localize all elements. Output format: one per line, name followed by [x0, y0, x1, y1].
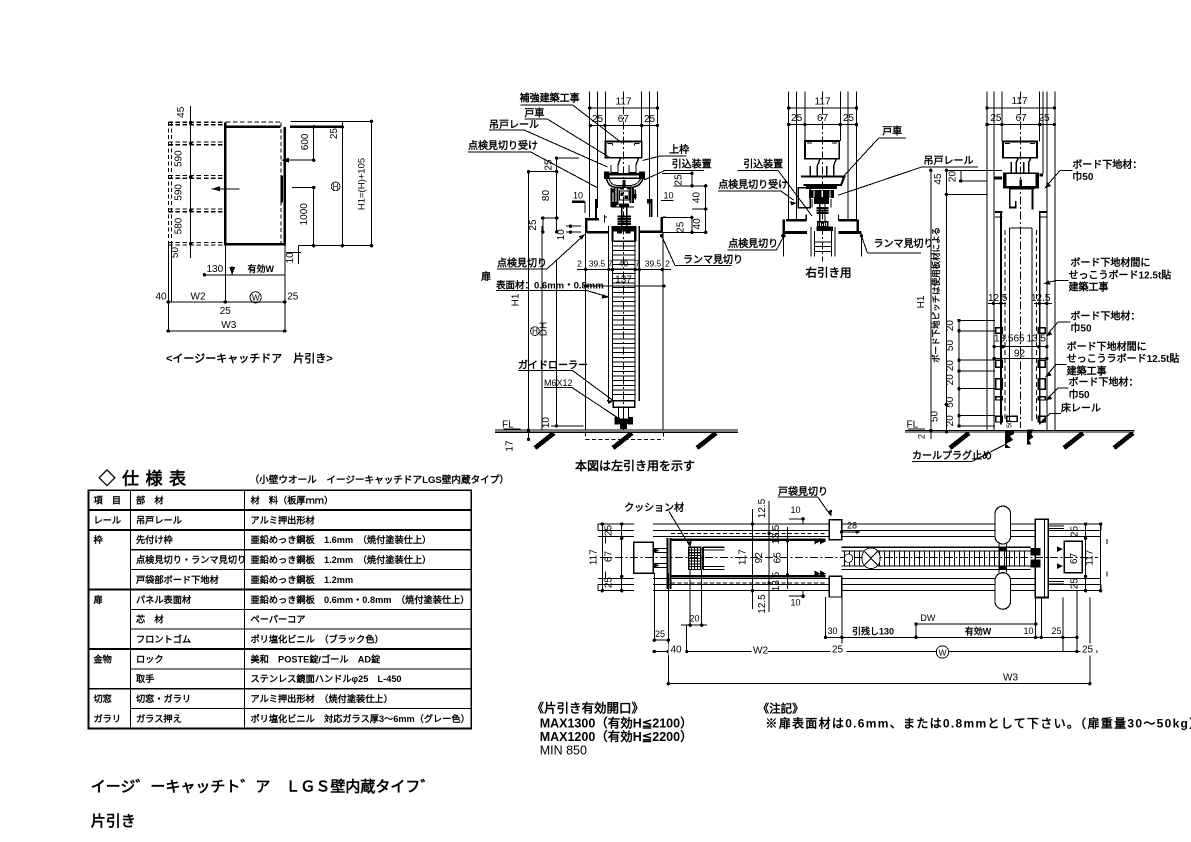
- drawing title: [91, 778, 436, 831]
- dim row 30/hikinokoshi/yukoW/10/25: [826, 636, 1077, 638]
- svg-text:25: 25: [843, 113, 855, 124]
- svg-text:W2: W2: [191, 291, 206, 302]
- centerline D: [1019, 92, 1021, 429]
- ledge left C: [786, 219, 806, 221]
- svg-text:7: 7: [608, 258, 613, 268]
- small detail circle: [844, 554, 852, 562]
- pocket side plates: [585, 233, 587, 430]
- dim 600: [313, 127, 315, 160]
- svg-text:扉: 扉: [94, 594, 103, 605]
- svg-text:点検見切り受け: 点検見切り受け: [468, 139, 538, 152]
- svg-text:25: 25: [528, 219, 539, 231]
- slide direction arrow: [212, 188, 240, 190]
- svg-text:25: 25: [220, 306, 232, 317]
- door cap D: [1009, 187, 1034, 189]
- svg-text:13.5: 13.5: [1027, 334, 1047, 345]
- substrate boxes D: [996, 328, 1003, 333]
- section C: right-sliding version top detail: [718, 92, 978, 280]
- substrate dashed lines D: [1004, 230, 1006, 420]
- bottom tie line: [299, 245, 372, 247]
- door panel plan (hatched): [842, 546, 1031, 548]
- plan dim 92: [768, 501, 770, 612]
- svg-text:ボード下地材間に: ボード下地材間に: [1067, 340, 1147, 353]
- right jamb: [1035, 519, 1048, 597]
- svg-text:点検見切り: 点検見切り: [728, 237, 778, 250]
- svg-text:92: 92: [754, 552, 765, 564]
- svg-text:右引き用: 右引き用: [805, 266, 852, 280]
- svg-text:20: 20: [945, 374, 956, 386]
- svg-text:40: 40: [156, 291, 168, 302]
- svg-text:25: 25: [655, 629, 665, 639]
- left dim col D: 45 line: [945, 170, 947, 432]
- door end black strikes: [1030, 548, 1040, 556]
- svg-text:10: 10: [556, 229, 567, 241]
- svg-text:65: 65: [773, 552, 784, 564]
- svg-text:レール: レール: [94, 515, 122, 525]
- svg-text:巾50: 巾50: [1070, 322, 1092, 335]
- svg-text:戸袋部ボード下地材: 戸袋部ボード下地材: [136, 574, 219, 585]
- svg-text:（小壁ウオール イージーキャッチドアLGS壁内蔵タイプ）: （小壁ウオール イージーキャッチドアLGS壁内蔵タイプ）: [250, 474, 509, 486]
- svg-text:戸車: 戸車: [524, 106, 544, 119]
- svg-text:117: 117: [815, 97, 831, 108]
- retraction device bowl: [606, 178, 643, 187]
- svg-text:部 材: 部 材: [136, 495, 164, 506]
- svg-text:建築工事: 建築工事: [1068, 281, 1109, 294]
- svg-text:パネル表面材: パネル表面材: [136, 594, 191, 605]
- svg-text:W2: W2: [753, 646, 768, 657]
- svg-text:有効W: 有効W: [248, 263, 275, 274]
- opening range note: [532, 701, 693, 758]
- specification table: [88, 469, 509, 729]
- retraction device: top plate with end blocks: [604, 171, 610, 179]
- svg-text:枠: 枠: [93, 534, 104, 545]
- svg-text:25: 25: [1069, 578, 1080, 590]
- centerline: [623, 92, 625, 431]
- svg-text:40: 40: [691, 192, 702, 204]
- svg-text:吊戸レール: 吊戸レール: [924, 155, 974, 167]
- svg-text:DH: DH: [538, 322, 549, 336]
- svg-text:せっこうボード12.5t貼: せっこうボード12.5t貼: [1069, 268, 1172, 281]
- svg-text:10: 10: [573, 191, 583, 201]
- plan right dim 117: [1100, 524, 1102, 591]
- svg-text:67: 67: [618, 114, 630, 125]
- right label column: [1040, 158, 1180, 424]
- svg-text:25: 25: [791, 113, 803, 124]
- svg-text:10: 10: [791, 598, 801, 608]
- svg-text:25: 25: [1069, 526, 1080, 538]
- pocket trim boxes: [829, 520, 841, 540]
- flange right C: [839, 231, 862, 234]
- svg-text:切窓・ガラリ: 切窓・ガラリ: [136, 693, 191, 704]
- svg-text:13.5: 13.5: [994, 334, 1014, 345]
- svg-text:25: 25: [674, 174, 685, 186]
- dim 20 top D: [960, 170, 962, 181]
- plan dim 117 mid: [751, 509, 753, 609]
- extension lines bottom: [167, 245, 169, 331]
- svg-text:扉: 扉: [480, 270, 491, 283]
- dim 25/67/25: [590, 125, 657, 127]
- svg-text:ポリ塩化ビニル 対応ガラス厚3～6mm（グレー色）: ポリ塩化ビニル 対応ガラス厚3～6mm（グレー色）: [251, 713, 470, 724]
- H dim line with circle symbol: [541, 226, 543, 430]
- frame box left: [634, 542, 653, 573]
- leader labels upper left: [468, 92, 622, 420]
- svg-text:上枠: 上枠: [669, 143, 689, 156]
- small ticks 10 gap: [566, 225, 581, 227]
- dim row 40/W2/25/W/25: [654, 651, 1096, 653]
- plate end arrows: [815, 538, 821, 544]
- svg-text:巾50: 巾50: [1069, 388, 1091, 401]
- hanger bracket D: [1004, 173, 1039, 187]
- svg-text:20: 20: [947, 171, 958, 183]
- dim 25/67/25 D: [987, 124, 1054, 126]
- pocket side plates D: [1000, 213, 1002, 425]
- left dim 25/80 line: [556, 158, 558, 232]
- svg-text:20: 20: [945, 360, 956, 372]
- plan dim 65: [787, 527, 789, 589]
- svg-text:25: 25: [1082, 645, 1094, 656]
- top extension line: [291, 120, 372, 122]
- rail box C: [805, 141, 839, 159]
- svg-text:590: 590: [173, 184, 184, 201]
- svg-text:芯 材: 芯 材: [136, 614, 164, 625]
- frame box right: [1064, 541, 1082, 572]
- svg-text:25: 25: [543, 159, 554, 171]
- svg-text:600: 600: [300, 133, 311, 150]
- door panel C: [810, 227, 812, 257]
- dim W3: [168, 330, 284, 332]
- rollers D: [1009, 158, 1018, 174]
- svg-text:表面材：0.6mm・0.8mm: 表面材：0.6mm・0.8mm: [495, 279, 604, 291]
- svg-text:先付け枠: 先付け枠: [136, 534, 174, 545]
- svg-text:67: 67: [604, 551, 615, 563]
- svg-text:ボード下地ピッチは使用板材による: ボード下地ピッチは使用板材による: [931, 227, 941, 363]
- svg-text:50: 50: [945, 340, 956, 352]
- svg-text:20: 20: [945, 320, 956, 332]
- svg-text:13.5: 13.5: [771, 524, 782, 544]
- table row lines col2-3: [88, 509, 471, 511]
- table outer border: [88, 490, 471, 728]
- svg-text:MAX1300（有効H≦2100）: MAX1300（有効H≦2100）: [540, 716, 693, 731]
- door leaf left edge: [224, 122, 226, 245]
- svg-text:10: 10: [285, 252, 296, 264]
- door panel skins: [608, 226, 610, 401]
- svg-text:引残し130: 引残し130: [852, 626, 894, 637]
- svg-text:点検見切り・ランマ見切り: 点検見切り・ランマ見切り: [136, 554, 246, 565]
- pocket side plates (thick): [671, 539, 826, 541]
- dim 40/W2/W/25: [168, 301, 284, 303]
- svg-text:ガラリ: ガラリ: [94, 713, 122, 724]
- svg-text:吊戸レール: 吊戸レール: [489, 119, 539, 131]
- retraction device C (bowl): [801, 177, 845, 186]
- svg-text:亜鉛めっき鋼板 1.2mm: 亜鉛めっき鋼板 1.2mm: [251, 574, 354, 585]
- svg-text:1000: 1000: [299, 203, 310, 226]
- svg-text:117: 117: [1012, 96, 1028, 107]
- svg-text:H: H: [532, 327, 538, 336]
- door bottom: [226, 243, 286, 245]
- pocket ledges D: [995, 211, 1002, 213]
- wall lines left of frame: [598, 523, 634, 525]
- svg-text:12.5: 12.5: [988, 293, 1008, 304]
- section D: pocket section with board substrate: [905, 92, 1134, 463]
- flange left C: [783, 231, 807, 234]
- door hidden dashed edge: [280, 122, 282, 245]
- dim 130 / yuko W: [204, 274, 284, 276]
- svg-text:67: 67: [817, 113, 829, 124]
- door cap C (black): [816, 226, 833, 231]
- svg-text:ステンレス鏡面ハンドルφ25 L-450: ステンレス鏡面ハンドルφ25 L-450: [251, 673, 402, 684]
- pitch ticks D: [958, 321, 960, 427]
- svg-text:金物: 金物: [93, 653, 112, 664]
- svg-text:《注記》: 《注記》: [758, 702, 804, 716]
- H symbol circle: [331, 182, 340, 191]
- svg-text:《片引き有効開口》: 《片引き有効開口》: [532, 701, 645, 716]
- svg-text:2: 2: [665, 258, 670, 268]
- svg-text:39.5: 39.5: [645, 258, 662, 268]
- floor rail D: [1007, 416, 1018, 421]
- svg-text:W: W: [938, 647, 946, 657]
- ledge right C: [839, 219, 857, 221]
- svg-text:美和 POSTE錠/ゴール AD錠: 美和 POSTE錠/ゴール AD錠: [251, 653, 381, 664]
- svg-text:ランマ見切り: ランマ見切り: [874, 238, 934, 250]
- FL floor line left: [495, 420, 738, 474]
- svg-text:DW: DW: [920, 613, 935, 623]
- door rear cap: [702, 547, 704, 569]
- svg-text:W3: W3: [1003, 673, 1018, 684]
- svg-text:25: 25: [329, 128, 340, 140]
- svg-text:40: 40: [671, 645, 683, 656]
- svg-text:2: 2: [577, 258, 582, 268]
- svg-text:ポリ塩化ビニル （ブラック色）: ポリ塩化ビニル （ブラック色）: [251, 633, 384, 644]
- svg-text:10: 10: [1024, 626, 1034, 636]
- svg-text:30: 30: [828, 626, 838, 636]
- jamb connectors right: [1048, 525, 1064, 527]
- svg-text:せっこうラボード12.5t貼: せっこうラボード12.5t貼: [1067, 352, 1180, 365]
- svg-text:床レール: 床レール: [1061, 402, 1101, 415]
- pocket dashed edges: [671, 533, 826, 535]
- stem C: [819, 204, 821, 223]
- lintel trim right (thick flange): [640, 231, 663, 234]
- svg-text:25: 25: [1038, 113, 1050, 124]
- svg-text:10: 10: [541, 417, 552, 429]
- svg-text:切窓: 切窓: [94, 693, 112, 704]
- dim 117 C: [789, 107, 857, 109]
- svg-text:※扉表面材は0.6mm、または0.8mmとして下さい。（扉重: ※扉表面材は0.6mm、または0.8mmとして下さい。（扉重量30～50kg）: [765, 716, 1191, 731]
- left dim column H1: [528, 172, 530, 440]
- svg-text:40: 40: [692, 218, 703, 230]
- elevation view: pocket door: [156, 106, 374, 365]
- svg-text:67: 67: [1069, 552, 1080, 564]
- svg-text:引込装置: 引込装置: [672, 157, 712, 170]
- door roller right: [627, 158, 639, 173]
- svg-text:117: 117: [616, 97, 632, 108]
- svg-text:本図は左引き用を示す: 本図は左引き用を示す: [575, 458, 695, 473]
- svg-text:アルミ押出形材 （焼付塗装仕上）: アルミ押出形材 （焼付塗装仕上）: [251, 693, 393, 704]
- svg-text:20: 20: [945, 415, 956, 427]
- left dim 25 lower: [542, 218, 544, 232]
- svg-text:ガイドローラー: ガイドローラー: [518, 358, 588, 371]
- plan dim col 117 left: [601, 524, 603, 591]
- H1 line D: [930, 170, 932, 430]
- svg-text:12.5: 12.5: [757, 594, 768, 614]
- pocket walls C (cut): [782, 236, 784, 257]
- svg-text:<イージーキャッチドア 片引き>: <イージーキャッチドア 片引き>: [166, 351, 333, 365]
- right dim 40/40: [705, 186, 707, 233]
- note block: [758, 702, 1191, 731]
- plan dim col 25/67/25 left: [621, 524, 623, 591]
- svg-text:H1: H1: [511, 293, 522, 306]
- svg-text:25: 25: [990, 113, 1002, 124]
- wall stud lines: [589, 92, 591, 218]
- handle (stadium shapes): [995, 506, 1011, 544]
- right dim column of B: 25: [691, 173, 693, 186]
- inspection trim receiver left (thick bracket): [572, 200, 584, 202]
- svg-text:40: 40: [619, 258, 629, 268]
- frame thickness dim row 2/39.5/7/40/7/39.5/2: [577, 269, 671, 271]
- retraction device gear cluster: [611, 188, 613, 207]
- wall break marks right: [1100, 524, 1102, 530]
- H dim line: [341, 121, 343, 245]
- svg-text:ガラス押え: ガラス押え: [136, 713, 182, 724]
- guide roller box: [613, 401, 634, 407]
- svg-text:点検見切り受け: 点検見切り受け: [718, 178, 788, 191]
- svg-text:亜鉛めっき鋼板 1.6mm （焼付塗装仕上）: 亜鉛めっき鋼板 1.6mm （焼付塗装仕上）: [251, 534, 432, 545]
- svg-text:2: 2: [917, 434, 927, 439]
- paper core rungs: [612, 245, 635, 247]
- svg-text:亜鉛めっき鋼板 0.6mm・0.8mm （焼付塗装仕上）: 亜鉛めっき鋼板 0.6mm・0.8mm （焼付塗装仕上）: [251, 594, 470, 605]
- door right edge: [284, 127, 286, 245]
- H1 dim line: [371, 121, 373, 245]
- svg-text:ボード下地材：: ボード下地材：: [1070, 309, 1140, 322]
- centerline C: [822, 92, 824, 262]
- small L bracket top left of cap: [604, 215, 606, 223]
- svg-text:25: 25: [1052, 626, 1062, 636]
- floor hatches D: [950, 433, 969, 448]
- svg-text:25: 25: [676, 221, 687, 233]
- svg-text:H: H: [333, 182, 339, 191]
- svg-text:吊戸レール: 吊戸レール: [136, 515, 182, 525]
- svg-text:有効W: 有効W: [965, 626, 992, 637]
- pocket dashed bands: [168, 121, 225, 123]
- section B: vertical section through door (left-sliding): [511, 92, 671, 440]
- svg-text:28: 28: [847, 521, 857, 531]
- wall lines over pocket: [653, 523, 829, 525]
- svg-text:25: 25: [644, 114, 656, 125]
- svg-text:ボード下地材間に: ボード下地材間に: [1070, 256, 1150, 269]
- svg-text:25: 25: [287, 291, 299, 302]
- svg-text:戸袋見切り: 戸袋見切り: [778, 485, 828, 498]
- door top cap (black): [612, 226, 636, 231]
- svg-text:W: W: [252, 294, 260, 303]
- svg-text:50: 50: [945, 396, 956, 408]
- door roller left: [609, 158, 621, 173]
- anchor bolts (black): [1005, 430, 1014, 448]
- svg-text:117: 117: [589, 549, 600, 565]
- pocket end plate: [666, 538, 668, 589]
- svg-text:W3: W3: [221, 320, 236, 331]
- svg-text:590: 590: [173, 150, 184, 167]
- svg-text:7: 7: [635, 258, 640, 268]
- hatched bolt box C: [818, 222, 828, 227]
- svg-text:39.5: 39.5: [589, 258, 606, 268]
- wall break marks left: [597, 524, 599, 530]
- svg-text:10: 10: [791, 505, 801, 515]
- dim 25/67/25 C: [789, 124, 857, 126]
- DH dim line: [556, 260, 558, 426]
- svg-text:クッション材: クッション材: [624, 501, 684, 514]
- handle cross: [998, 544, 1000, 573]
- svg-text:取手: 取手: [136, 673, 154, 684]
- svg-text:25: 25: [592, 114, 604, 125]
- door head bar: [226, 126, 281, 128]
- svg-text:アルミ押出形材: アルミ押出形材: [251, 514, 315, 525]
- svg-text:580: 580: [173, 217, 184, 234]
- table column lines: [129, 490, 131, 728]
- hanger rail box: [605, 142, 641, 158]
- svg-text:◇仕様表: ◇仕様表: [98, 469, 193, 489]
- dim 10 bottom right: [298, 246, 300, 264]
- svg-text:亜鉛めっき鋼板 1.2mm （焼付塗装仕上）: 亜鉛めっき鋼板 1.2mm （焼付塗装仕上）: [251, 554, 432, 565]
- svg-text:65: 65: [1014, 334, 1026, 345]
- svg-text:117: 117: [737, 549, 748, 565]
- svg-text:ボード下地材：: ボード下地材：: [1069, 376, 1139, 389]
- cushion block: [689, 547, 701, 569]
- plan right dims 25/67/25: [1085, 524, 1087, 591]
- svg-text:戸車: 戸車: [882, 125, 902, 138]
- svg-text:12.5: 12.5: [757, 498, 768, 518]
- svg-text:フロントゴム: フロントゴム: [136, 633, 191, 644]
- svg-text:H1: H1: [916, 295, 927, 308]
- svg-text:補強建築工事: 補強建築工事: [519, 92, 580, 105]
- svg-text:67: 67: [1016, 113, 1028, 124]
- svg-text:MAX1200（有効H≦2200）: MAX1200（有効H≦2200）: [540, 729, 693, 744]
- frame connectors left: [653, 547, 668, 549]
- svg-text:20: 20: [690, 614, 700, 624]
- rail box D: [1003, 142, 1037, 158]
- svg-text:材 料（板厚ｍｍ）: 材 料（板厚ｍｍ）: [251, 495, 334, 506]
- door handle: [281, 176, 284, 203]
- svg-text:117: 117: [1084, 549, 1095, 565]
- svg-text:ロック: ロック: [136, 654, 164, 664]
- svg-text:引込装置: 引込装置: [743, 157, 783, 170]
- svg-text:点検見切り: 点検見切り: [497, 257, 547, 270]
- svg-text:H1=(H)+105: H1=(H)+105: [356, 158, 367, 210]
- svg-text:ペーパーコア: ペーパーコア: [251, 614, 306, 625]
- svg-text:17: 17: [505, 440, 516, 452]
- svg-text:イージ゛ーキャッチト゛ア ＬＧＳ壁内蔵タイフ゛: イージ゛ーキャッチト゛ア ＬＧＳ壁内蔵タイフ゛: [91, 778, 436, 796]
- svg-text:137: 137: [615, 274, 632, 285]
- right dim 25 lower: [691, 217, 693, 232]
- guide roller feet (black): [615, 417, 620, 425]
- dim 1000: [313, 188, 315, 246]
- svg-text:10: 10: [664, 190, 674, 200]
- plan centerline: [600, 557, 1098, 559]
- dim 117 D: [987, 107, 1054, 109]
- hanger bolt stem: [621, 207, 623, 227]
- svg-text:13.5: 13.5: [771, 571, 782, 591]
- svg-text:ランマ見切り: ランマ見切り: [683, 254, 743, 266]
- svg-text:MIN 850: MIN 850: [540, 744, 587, 758]
- svg-text:建築工事: 建築工事: [1066, 364, 1107, 377]
- svg-text:45: 45: [176, 106, 187, 118]
- wall fixing notches D: [994, 177, 1002, 180]
- floor hatch marks: [535, 433, 554, 448]
- svg-text:130: 130: [207, 264, 224, 275]
- pocket dashed left edge: [167, 122, 169, 245]
- trim receiver box C (left protrusion): [798, 188, 810, 208]
- svg-text:45: 45: [933, 173, 944, 185]
- svg-text:片引き: 片引き: [91, 812, 136, 830]
- mid labels column: [643, 143, 744, 266]
